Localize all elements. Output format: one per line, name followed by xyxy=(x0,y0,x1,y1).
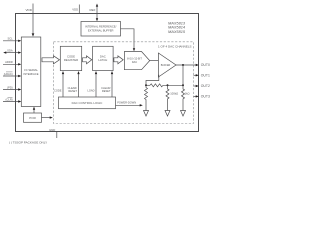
signal CLEAR/RESET into DAC latch xyxy=(111,73,113,97)
bus arrow code register to DAC latch xyxy=(83,56,92,64)
svg-text:DAC: DAC xyxy=(132,61,137,64)
resistor R1 feedback (horizontal) xyxy=(150,84,163,87)
svg-text:(LDAC): (LDAC) xyxy=(4,72,13,76)
svg-text:INTERFACE: INTERFACE xyxy=(23,72,38,76)
block U1 internal reference / external buffer xyxy=(81,22,121,37)
svg-text:CODE: CODE xyxy=(54,88,62,92)
pin (CLR) active-low, TSSOP only xyxy=(3,101,20,103)
pin REF xyxy=(96,6,98,20)
node feedback junction xyxy=(145,84,147,86)
svg-text:OUT0: OUT0 xyxy=(201,63,210,67)
pin VDD xyxy=(32,4,34,35)
svg-text:LATCH: LATCH xyxy=(98,58,107,62)
block I2C serial interface xyxy=(21,37,41,107)
pin OUT1 xyxy=(194,74,198,76)
bus arrow interface to code register xyxy=(42,56,60,64)
svg-text:GND: GND xyxy=(49,128,55,132)
pin SCL xyxy=(3,40,20,42)
pin (LDAC) active-low, TSSOP only xyxy=(3,75,20,77)
pin GND xyxy=(56,132,58,139)
pin SDA (bidirectional) xyxy=(5,52,20,54)
part number labels MAX5813/MAX5814/MAX5815 xyxy=(168,20,186,33)
wire POR to interface xyxy=(33,108,35,113)
svg-text:SDA: SDA xyxy=(7,48,13,52)
dashed box 1 OF 4 DAC CHANNELS xyxy=(54,42,194,124)
block code register xyxy=(60,46,81,70)
svg-text:INTERNAL REFERENCE/: INTERNAL REFERENCE/ xyxy=(85,25,117,29)
node 1k junction xyxy=(182,84,184,86)
signal CLEAR/RESET into code register xyxy=(78,73,80,97)
signal POWER-DOWN to switches xyxy=(116,104,142,106)
svg-text:RESET: RESET xyxy=(102,89,111,93)
svg-text:(PD): (PD) xyxy=(7,85,13,89)
svg-text:OUT3: OUT3 xyxy=(201,95,210,99)
pin (PD) TSSOP only xyxy=(3,89,20,91)
switch S2 and resistor R4 1k to ground xyxy=(182,85,185,111)
bus arrow DAC latch to DAC xyxy=(114,56,123,64)
svg-text:EXTERNAL BUFFER: EXTERNAL BUFFER xyxy=(88,29,114,33)
svg-text:POR: POR xyxy=(29,116,36,120)
pin OUT2 xyxy=(194,85,198,87)
svg-text:1kΩ: 1kΩ xyxy=(185,92,190,96)
svg-text:REGISTER: REGISTER xyxy=(64,58,78,62)
svg-text:BUFFER: BUFFER xyxy=(161,64,171,67)
switch S1 and resistor R3 100k to ground xyxy=(166,85,169,111)
svg-text:(CLR): (CLR) xyxy=(6,97,13,101)
svg-text:VDD: VDD xyxy=(25,8,32,12)
svg-text:REF: REF xyxy=(90,8,96,12)
block DAC latch xyxy=(93,46,114,70)
svg-text:( ) TSSOP PACKAGE ONLY: ( ) TSSOP PACKAGE ONLY xyxy=(9,140,47,144)
svg-text:MAX5815: MAX5815 xyxy=(168,29,186,34)
wire output down to resistor network xyxy=(182,65,184,85)
signal CODE into code register xyxy=(62,73,64,97)
wire POR to DAC control logic xyxy=(42,117,52,119)
ground for R2 xyxy=(144,111,149,117)
DAC D1 8-/10-/12-bit DAC (pentagon) xyxy=(124,52,149,70)
signal LOAD into DAC latch xyxy=(95,73,97,97)
wire inverting input to feedback node xyxy=(146,75,159,86)
chip outline xyxy=(16,14,199,132)
svg-text:SCL: SCL xyxy=(7,37,13,41)
svg-text:POWER-DOWN: POWER-DOWN xyxy=(117,101,136,105)
svg-text:OUT2: OUT2 xyxy=(201,84,210,88)
ground for R3 xyxy=(165,111,170,117)
svg-text:ADDR: ADDR xyxy=(5,60,13,64)
op-amp U2 buffer xyxy=(158,53,176,77)
node 100k junction xyxy=(167,84,169,86)
resistor R2 gain-setting to ground xyxy=(145,85,148,111)
node output junction xyxy=(182,64,184,66)
svg-text:100kΩ: 100kΩ xyxy=(170,92,178,96)
svg-text:I²C SERIAL: I²C SERIAL xyxy=(24,68,38,72)
pin OUT3 xyxy=(194,95,198,97)
svg-text:RESET: RESET xyxy=(68,89,77,93)
block POR xyxy=(24,113,42,122)
wire reference output to DAC xyxy=(121,29,135,50)
svg-text:VDD: VDD xyxy=(72,7,78,11)
pin VDD stub near reference block xyxy=(78,5,80,14)
svg-text:OUT1: OUT1 xyxy=(201,74,210,78)
svg-text:LOAD: LOAD xyxy=(87,88,94,92)
svg-text:DAC CONTROL LOGIC: DAC CONTROL LOGIC xyxy=(72,101,103,105)
wire DAC to buffer xyxy=(150,60,159,62)
svg-text:1 OF 4 DAC CHANNELS: 1 OF 4 DAC CHANNELS xyxy=(158,45,192,49)
pin ADDR xyxy=(3,63,20,65)
wire feedback node line xyxy=(146,84,150,86)
ground for R4 xyxy=(181,111,186,117)
block DAC control logic xyxy=(59,97,116,109)
wire buffer output to OUT0 pin xyxy=(176,64,197,66)
